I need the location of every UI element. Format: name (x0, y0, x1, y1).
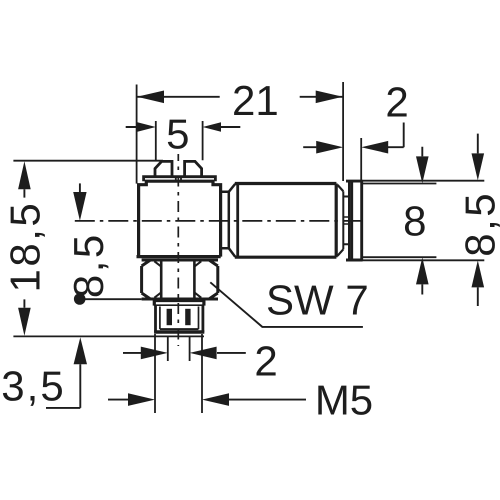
dim 3,5 arrowhead (74, 337, 87, 364)
dim 8,5 left tail (79, 183, 81, 192)
dim 8,5 right arrowheads (472, 153, 485, 287)
dim 8 arrow tails (421, 147, 423, 295)
stud end face (154, 330, 204, 333)
groove right wall (348, 182, 350, 259)
dim 8 arrowheads (416, 156, 429, 284)
dim 21 line (137, 96, 343, 98)
dim 21 arrowheads (137, 91, 343, 104)
neck between body and cylinder (221, 192, 229, 248)
body: main square block (137, 181, 221, 256)
dim 21/2: shared right extension line (342, 82, 344, 181)
dim 2 bottom extension lines (168, 337, 190, 362)
screw slot marks in washer (176, 177, 181, 181)
dim 2 top line and leader (303, 123, 404, 148)
dim 18,5 arrowheads (18, 161, 31, 335)
svg-text:8,5: 8,5 (457, 191, 500, 257)
dim 8,5 left arrowhead (73, 192, 86, 221)
dim 18,5 bottom extension line (13, 335, 204, 337)
hex facet lines (161, 261, 194, 299)
groove left wall (342, 191, 344, 249)
horizontal centerline (75, 220, 368, 222)
svg-text:8,5: 8,5 (65, 232, 112, 298)
hex facet chamfer arcs (154, 261, 201, 297)
svg-text:18,5: 18,5 (2, 201, 49, 293)
screw slot left half (155, 161, 172, 176)
svg-text:3,5: 3,5 (1, 363, 65, 410)
body: cover washer plate (144, 177, 216, 182)
svg-text:2: 2 (254, 338, 277, 385)
dim 2 top: right extension line (360, 138, 362, 181)
dim M5 extension lines (155, 334, 202, 413)
chamfer top-left of cylinder (229, 184, 235, 192)
chamfer top-right to groove (338, 185, 344, 191)
groove floor lines (343, 197, 349, 245)
dim 2 top arrowheads (316, 141, 388, 154)
dim M5 arrowheads (128, 393, 229, 406)
svg-text:M5: M5 (315, 377, 373, 424)
bore bars (2mm orifice) (167, 309, 172, 325)
washer under hex (154, 300, 204, 306)
svg-text:21: 21 (232, 77, 279, 124)
SW 7 leader line (210, 282, 363, 327)
dim 5 line tails (126, 126, 241, 128)
dim 8,5 left dot (74, 293, 86, 305)
svg-text:8: 8 (403, 198, 426, 245)
dim 2 bottom arrowheads (141, 347, 217, 360)
svg-text:5: 5 (166, 111, 189, 158)
cylinder left face line (236, 184, 239, 258)
hex nut SW7 outline (142, 260, 218, 299)
dim M5 line tails (108, 399, 306, 401)
dim 3,5 leader (46, 364, 80, 408)
dim 8 extension lines (363, 184, 437, 258)
screw slot right half (185, 161, 202, 176)
dim 8,5 right arrow tails (477, 134, 479, 306)
dim 21: left extension line (136, 85, 138, 184)
dim 2 bottom line tails (123, 352, 246, 354)
dim 8,5 left dot extension line (84, 298, 142, 300)
svg-text:2: 2 (385, 79, 408, 126)
dim 18,5 arrow tails (23, 189, 25, 307)
chamfer bottom-left of cylinder (229, 248, 235, 257)
thread minor lines (160, 307, 199, 330)
threaded stud M5 (156, 306, 203, 333)
chamfer bottom-right to groove (338, 249, 344, 256)
vertical centerline (177, 154, 179, 346)
dim 8,5 right extension lines (363, 181, 485, 261)
dim 18,5 top extension line (13, 160, 163, 162)
dim 5 arrowheads (137, 122, 221, 132)
cylinder barrel (235, 184, 337, 258)
groove mid bore marks (343, 217, 349, 224)
svg-text:SW 7: SW 7 (266, 277, 369, 324)
dim 5 extension lines (156, 121, 203, 160)
end flange (346, 181, 363, 260)
